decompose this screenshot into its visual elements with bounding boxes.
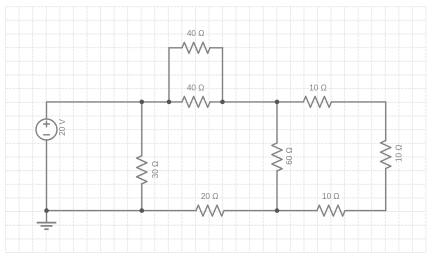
wire lead right of 40ohm lower [210,101,223,103]
wire lead left of 40ohm lower [169,101,182,103]
svg-text:20 V: 20 V [58,119,67,136]
svg-text:10 Ω: 10 Ω [309,84,327,93]
resistor 30ohm zigzag [137,156,147,184]
resistor 60ohm top lead [276,102,278,143]
resistor 30ohm bottom lead [141,184,143,211]
wire bottom left to 30ohm [47,210,142,212]
resistor 10ohm right top lead [385,102,387,141]
resistor 10ohm right zigzag [381,141,391,169]
node dot 60ohm bottom [275,208,280,213]
wire branch up left [168,48,170,102]
resistor 40ohm lower zigzag [182,96,210,107]
resistor 40ohm top zigzag [182,42,210,53]
wire source bottom to ground node [46,140,48,211]
wire 10ohm top to right corner [331,101,385,103]
ground symbol bars [37,223,57,230]
resistor 30ohm vertical: top lead [141,102,143,156]
resistor 10ohm right bottom lead [385,169,387,211]
wire lead right of 40ohm top [210,47,223,49]
resistor 10ohm top zigzag [303,96,331,107]
resistor 20ohm zigzag [196,205,224,216]
node dot D [275,100,280,105]
ground stub [46,211,48,223]
svg-text:10 Ω: 10 Ω [322,192,340,201]
voltage source V1 circle [36,119,57,140]
wire top-left from source to node A [47,102,142,119]
wire node C to node D [223,101,278,103]
resistor 10ohm bottom zigzag [317,205,345,216]
wire 10ohm bottom to right corner [345,210,386,212]
svg-text:10 Ω: 10 Ω [394,145,403,163]
node dot A [140,100,145,105]
svg-text:30 Ω: 30 Ω [151,161,160,179]
resistor 60ohm bottom lead [276,171,278,211]
wire lead left of 40ohm top [169,47,182,49]
svg-text:20 Ω: 20 Ω [201,192,219,201]
svg-text:40 Ω: 40 Ω [187,29,205,38]
node dot ground corner [44,208,49,213]
node dot B [167,100,172,105]
wire node A to node B [142,101,169,103]
wire node E to 10ohm bottom [277,210,317,212]
svg-text:60 Ω: 60 Ω [285,147,294,165]
wire lead left of 10ohm top [277,101,303,103]
resistor 60ohm zigzag [272,143,282,171]
wire 20ohm to node E [224,210,277,212]
wire 30ohm to 20ohm [142,210,196,212]
svg-text:40 Ω: 40 Ω [187,84,205,93]
voltage source plus sign [44,121,50,127]
node dot 30ohm bottom [140,208,145,213]
wire branch up right [222,48,224,102]
node dot C [220,100,225,105]
voltage source minus sign [44,134,50,136]
